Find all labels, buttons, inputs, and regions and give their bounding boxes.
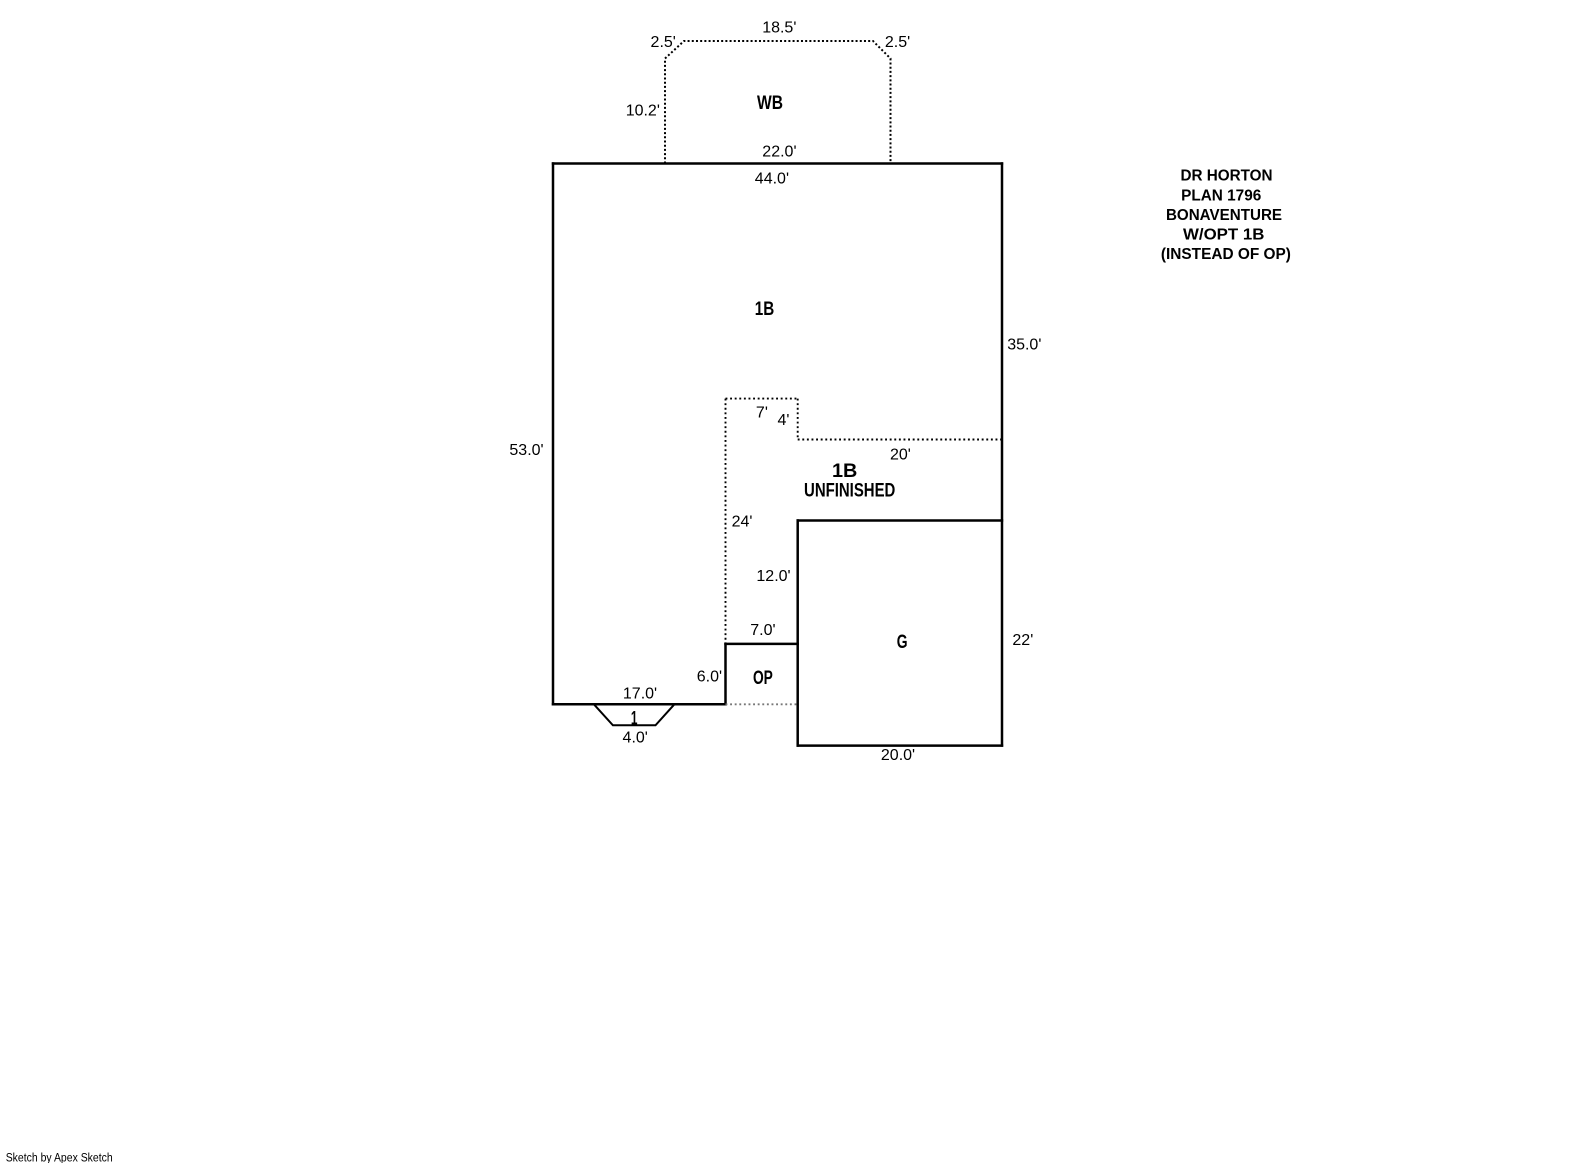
wall: garage left edge — [796, 519, 799, 747]
wall: garage top edge — [797, 519, 1004, 522]
svg-text:1: 1 — [631, 709, 638, 730]
dotted outline: 1B unfinished area left edge (24') — [725, 399, 727, 644]
porch stoop outline (area 1) — [594, 704, 675, 725]
wall: OP left edge (6.0') — [724, 643, 727, 706]
svg-text:22.0': 22.0' — [762, 143, 796, 160]
wall: OP top edge (7.0') — [724, 643, 799, 646]
dotted outline: unfinished area top edge (20') — [798, 439, 1002, 441]
svg-text:4.0': 4.0' — [623, 729, 648, 746]
dotted outline: notch right edge (4') — [797, 399, 799, 440]
svg-text:2.5': 2.5' — [651, 34, 676, 51]
wall: main house top edge — [552, 162, 1003, 165]
svg-text:6.0': 6.0' — [697, 668, 722, 685]
wall: main house bottom edge (17.0' span) — [552, 703, 727, 706]
svg-text:1B: 1B — [832, 461, 857, 482]
svg-text:18.5': 18.5' — [762, 20, 796, 37]
svg-text:4': 4' — [778, 412, 790, 429]
svg-text:10.2': 10.2' — [626, 103, 660, 120]
svg-text:WB: WB — [757, 93, 783, 114]
svg-text:44.0': 44.0' — [755, 171, 789, 188]
svg-text:20': 20' — [890, 447, 911, 464]
svg-text:12.0': 12.0' — [756, 568, 790, 585]
dashed outline: WB wood balcony — [665, 41, 891, 164]
svg-text:G: G — [897, 632, 908, 653]
wall: main house right edge (continues along garage right) — [1001, 162, 1004, 747]
svg-text:2.5': 2.5' — [885, 34, 910, 51]
svg-text:20.0': 20.0' — [881, 747, 915, 764]
svg-text:7': 7' — [756, 405, 768, 422]
svg-text:22': 22' — [1012, 632, 1033, 649]
dotted outline: notch top edge (7') — [726, 398, 798, 400]
wall: main house left edge — [552, 162, 555, 705]
svg-text:PLAN 1796: PLAN 1796 — [1181, 188, 1261, 205]
svg-text:W/OPT 1B: W/OPT 1B — [1183, 227, 1264, 244]
svg-text:1B: 1B — [755, 299, 775, 320]
svg-text:53.0': 53.0' — [509, 442, 543, 459]
svg-text:UNFINISHED: UNFINISHED — [804, 480, 895, 501]
wall: garage bottom edge — [797, 744, 1004, 747]
svg-text:17.0': 17.0' — [623, 685, 657, 702]
svg-text:DR HORTON: DR HORTON — [1180, 167, 1272, 184]
svg-text:Sketch by Apex Sketch: Sketch by Apex Sketch — [6, 1152, 113, 1163]
svg-text:OP: OP — [753, 668, 773, 689]
svg-text:7.0': 7.0' — [750, 622, 775, 639]
svg-text:35.0': 35.0' — [1007, 336, 1041, 353]
svg-text:24': 24' — [732, 514, 753, 531]
svg-text:BONAVENTURE: BONAVENTURE — [1166, 207, 1282, 224]
svg-text:(INSTEAD OF OP): (INSTEAD OF OP) — [1161, 246, 1291, 263]
dotted outline: OP bottom edge (gray) — [726, 703, 798, 705]
